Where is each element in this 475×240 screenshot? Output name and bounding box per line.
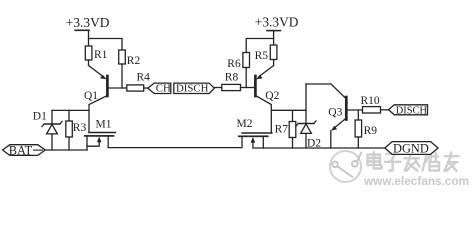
resistor R8: [222, 84, 241, 90]
svg-text:+3.3VD: +3.3VD: [66, 15, 110, 30]
mosfet M2 channel dashes: [239, 135, 268, 137]
mosfet M1 channel dashes: [85, 135, 114, 137]
wire R5 bottom to Q2 emitter: [273, 60, 275, 66]
wire Q3 base to R10: [348, 109, 363, 111]
resistor R9: [355, 120, 362, 137]
resistor R4: [127, 85, 144, 91]
wire D2 vertical (Q3 collector node): [305, 84, 307, 124]
svg-text:R10: R10: [361, 95, 380, 107]
svg-text:R4: R4: [137, 72, 151, 84]
wire R10 to DISCH flag: [381, 109, 389, 111]
power +3.3VD (right) rail tick: [267, 30, 280, 32]
svg-text:Q2: Q2: [265, 90, 279, 102]
watermark url text: [363, 174, 469, 188]
resistor R6: [243, 53, 250, 68]
wire DISCH flag to R8: [214, 87, 222, 89]
watermark chinese characters (approximated strokes): [368, 152, 459, 171]
wire rail to R1 top: [88, 30, 90, 46]
svg-text:M2: M2: [237, 118, 253, 130]
wire R1 bottom to Q1 emitter: [88, 60, 90, 66]
wire rail to R5 top: [273, 31, 275, 45]
port flag DGND: [385, 142, 438, 155]
svg-text:R7: R7: [275, 124, 289, 136]
svg-text:BAT: BAT: [9, 144, 33, 158]
transistor Q3 emitter diagonal with arrow out: [334, 118, 346, 128]
svg-text:R3: R3: [73, 122, 87, 134]
power +3.3VD (left) rail tick: [75, 29, 89, 31]
wire R4 to CH flag: [144, 87, 148, 89]
svg-text:R9: R9: [364, 125, 378, 137]
svg-text:R6: R6: [227, 58, 241, 70]
mosfet M1 drain leg: [108, 136, 242, 147]
node wire right (Q2 collector to R7/D2): [271, 109, 306, 111]
mosfet M2 source leg to DGND rail: [262, 137, 264, 148]
wire Q1 base to R4: [109, 87, 127, 89]
svg-text:R2: R2: [127, 55, 141, 67]
wire R3 top: [68, 110, 70, 121]
wire R8 to Q2 base: [241, 87, 255, 89]
transistor Q3 base bar: [345, 97, 348, 120]
transistor Q2 emitter diagonal with arrow into base bar: [259, 66, 274, 77]
mosfet M2 body arrow: [253, 140, 263, 148]
wire R7 top: [292, 110, 294, 121]
svg-text:CH: CH: [156, 83, 171, 95]
svg-text:+3.3VD: +3.3VD: [255, 15, 299, 30]
svg-text:M1: M1: [96, 119, 112, 131]
wire R3 bottom to BAT rail: [68, 137, 70, 150]
svg-text:www.elecfans.com: www.elecfans.com: [363, 174, 469, 188]
transistor Q2 base bar: [254, 76, 257, 96]
watermark logo circle: [330, 151, 362, 182]
mosfet M1 gate bar: [89, 132, 115, 134]
wire Q3 emitter to rail: [330, 131, 332, 148]
wire BAT rail: [45, 149, 87, 151]
svg-text:DISCH: DISCH: [176, 83, 209, 95]
svg-text:R5: R5: [255, 50, 269, 62]
wire rail branch to R2: [89, 39, 123, 51]
svg-text:D1: D1: [33, 111, 47, 123]
port flag DISCH (right): [389, 105, 428, 115]
transistor Q1 collector diagonal: [89, 96, 107, 133]
zener diode D2: [296, 121, 316, 133]
wire R2 bottom to Q1 base line: [121, 64, 123, 88]
wire D2 bottom to rail: [305, 133, 307, 148]
resistor R10: [363, 107, 381, 113]
port flag DISCH (mid): [174, 83, 215, 93]
mosfet M1 source leg to BAT rail: [86, 136, 88, 150]
svg-text:DGND: DGND: [393, 141, 429, 155]
mosfet M2 gate bar: [242, 132, 272, 134]
resistor R2: [119, 50, 126, 64]
svg-text:D2: D2: [307, 138, 321, 150]
port flag CH: [148, 83, 171, 93]
mosfet M1 body arrow: [87, 140, 99, 146]
svg-text:R8: R8: [225, 72, 239, 84]
svg-text:Q3: Q3: [328, 106, 342, 118]
transistor Q2 collector diagonal: [255, 96, 271, 134]
svg-text:Q1: Q1: [84, 90, 98, 102]
svg-text:DISCH: DISCH: [396, 105, 428, 116]
port flag BAT-: [3, 145, 46, 156]
wire R6 bottom to Q2 base line: [245, 68, 247, 88]
power +3.3VD (left) label: [66, 15, 110, 30]
zener diode D1: [42, 121, 62, 133]
wire DGND rail: [263, 147, 385, 149]
wire D1 bottom to BAT rail: [51, 134, 53, 150]
resistor R1: [85, 46, 92, 60]
node wire left (Q1 collector to D1/R3): [52, 109, 89, 111]
resistor R3: [66, 121, 73, 137]
wire Q3 collector from D2 node: [306, 84, 345, 98]
svg-text:R1: R1: [94, 49, 108, 61]
resistor R7: [289, 122, 296, 138]
transistor Q1 base bar: [106, 76, 109, 96]
wire R9 top from Q3 base: [357, 110, 359, 120]
transistor Q1 emitter diagonal with arrow into base bar: [89, 66, 104, 77]
wire R7 bottom to rail: [292, 138, 294, 149]
wire rail branch to R6: [246, 39, 273, 53]
wire R9 bottom to rail: [357, 137, 359, 148]
power +3.3VD (right) label: [255, 15, 299, 30]
wire D1 top: [51, 110, 53, 124]
resistor R5: [270, 45, 277, 60]
